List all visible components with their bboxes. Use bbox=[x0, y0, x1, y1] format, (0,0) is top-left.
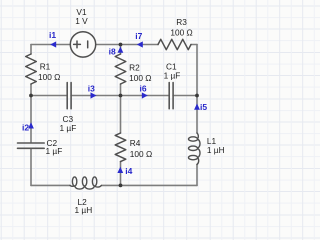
svg-text:R3: R3 bbox=[176, 17, 187, 27]
junction node E bbox=[119, 94, 123, 98]
svg-text:i4: i4 bbox=[125, 166, 132, 176]
wire R4 branch leads bbox=[120, 96, 122, 186]
junction node D bbox=[29, 94, 33, 98]
svg-text:i2: i2 bbox=[22, 122, 29, 132]
wire left vertical node D to C2 bbox=[30, 96, 32, 143]
svg-text:100 Ω: 100 Ω bbox=[170, 27, 192, 37]
capacitor C2 bbox=[18, 143, 45, 148]
wire middle horizontal node D to C3 bbox=[31, 95, 67, 97]
wire left vertical R1 leads bbox=[30, 45, 32, 96]
svg-text:i5: i5 bbox=[200, 102, 207, 112]
svg-text:1 µF: 1 µF bbox=[60, 123, 77, 133]
resistor R4 bbox=[115, 133, 126, 162]
svg-text:100 Ω: 100 Ω bbox=[130, 149, 152, 159]
junction node F bbox=[195, 94, 199, 98]
wire middle horizontal C1 to node F bbox=[173, 95, 197, 97]
current arrow i7 bbox=[135, 31, 143, 47]
current arrow i1 bbox=[49, 30, 56, 48]
wire L1 to bottom right corner bbox=[196, 164, 198, 185]
current arrow i8 bbox=[109, 47, 124, 57]
current arrow i4 bbox=[117, 166, 132, 176]
svg-text:i7: i7 bbox=[135, 31, 142, 41]
current arrow i3 bbox=[88, 83, 97, 98]
current arrow i5 bbox=[194, 102, 207, 112]
svg-text:i1: i1 bbox=[49, 30, 56, 40]
wire bottom L2 to node H to bottom right corner bbox=[102, 184, 197, 186]
inductor L2 bbox=[70, 177, 101, 189]
svg-text:R4: R4 bbox=[130, 138, 141, 148]
svg-text:R1: R1 bbox=[40, 62, 51, 72]
svg-text:i3: i3 bbox=[88, 83, 95, 93]
current arrow i6 bbox=[139, 83, 147, 98]
resistor R1 bbox=[26, 54, 37, 84]
inductor L1 bbox=[189, 133, 200, 164]
svg-text:1 µH: 1 µH bbox=[75, 205, 93, 215]
svg-text:100 Ω: 100 Ω bbox=[129, 73, 151, 83]
resistor R3 bbox=[158, 39, 191, 49]
junction node H bbox=[119, 184, 123, 188]
svg-text:i8: i8 bbox=[109, 47, 116, 57]
wire bottom node G to L2 bbox=[31, 184, 70, 186]
svg-text:1 µF: 1 µF bbox=[164, 70, 181, 80]
wire V1 to node B to node C (top right corner) bbox=[96, 44, 197, 46]
wire R2 branch leads bbox=[120, 45, 122, 96]
wire middle horizontal C3 to node E to C1 bbox=[71, 95, 169, 97]
svg-text:1 V: 1 V bbox=[75, 16, 88, 26]
wire right vertical node C to node F bbox=[196, 45, 198, 96]
svg-text:100 Ω: 100 Ω bbox=[38, 72, 60, 82]
wire top-left segment node A to V1 bbox=[31, 44, 70, 46]
wire C2 to node G (bottom left corner) bbox=[30, 148, 32, 185]
svg-text:1 µF: 1 µF bbox=[46, 146, 63, 156]
wire right vertical node F to L1 bbox=[196, 96, 198, 134]
svg-text:i6: i6 bbox=[139, 83, 146, 93]
svg-text:1 µH: 1 µH bbox=[207, 145, 225, 155]
capacitor C3 bbox=[67, 83, 71, 109]
junction node B bbox=[119, 43, 123, 47]
capacitor C1 bbox=[169, 83, 173, 109]
voltage source V1 bbox=[70, 32, 95, 57]
resistor R2 bbox=[115, 54, 126, 84]
svg-text:R2: R2 bbox=[129, 63, 140, 73]
current arrow i2 bbox=[22, 122, 34, 132]
